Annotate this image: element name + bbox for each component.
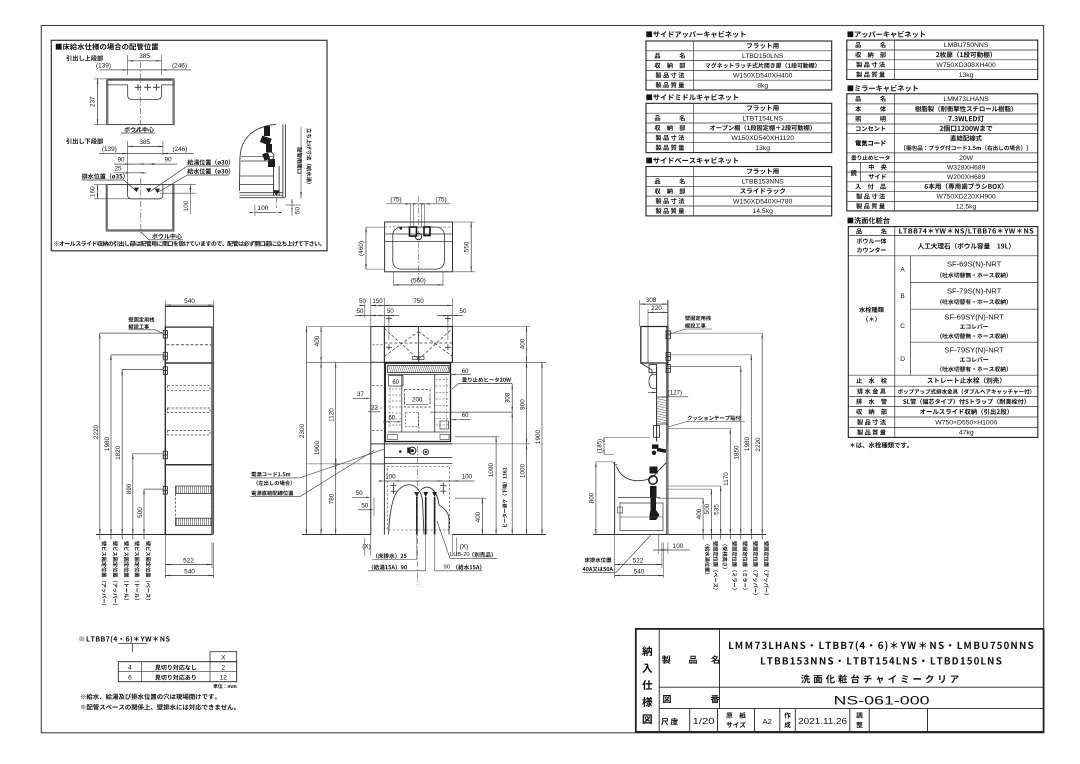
- svg-text:22: 22: [371, 405, 378, 412]
- box: floor water supply piping positions: [51, 40, 327, 251]
- svg-text:50: 50: [387, 308, 394, 315]
- side section: riser dim line: [300, 127, 302, 199]
- svg-text:308: 308: [505, 392, 512, 403]
- side view: 100 bottom dim: [658, 535, 660, 555]
- upper counter: 385 dim: [128, 60, 162, 62]
- svg-text:1980: 1980: [104, 436, 111, 451]
- side view: wall clips right: [666, 331, 670, 339]
- svg-text:750: 750: [413, 298, 424, 305]
- svg-text:900: 900: [519, 399, 526, 410]
- label: hot water position: [187, 159, 230, 165]
- table header: side upper cabinet: [646, 31, 745, 38]
- svg-text:50: 50: [359, 298, 366, 305]
- elevation: counter band: [371, 443, 453, 445]
- vanity: faucet type label: [859, 307, 884, 313]
- svg-text:522: 522: [633, 557, 644, 564]
- elevation: top dim row 50/150/750: [361, 305, 365, 307]
- svg-text:50: 50: [356, 490, 363, 497]
- svg-text:1820: 1820: [115, 445, 122, 460]
- svg-text:50: 50: [357, 308, 364, 315]
- plan view: bowl rounded rect: [393, 227, 445, 269]
- svg-text:385: 385: [139, 53, 150, 60]
- svg-text:50: 50: [295, 207, 302, 215]
- svg-text:LTBB153NNS: LTBB153NNS: [742, 179, 785, 186]
- elevation: bottom pipe labels: [376, 553, 407, 558]
- svg-text:(X): (X): [362, 544, 371, 551]
- svg-text:W750XD308XH400: W750XD308XH400: [936, 62, 996, 69]
- tall cabinet: 522/540 bottom dims: [164, 535, 166, 579]
- mirror: interior columns: [401, 375, 403, 433]
- svg-text:150: 150: [372, 298, 383, 305]
- elevation: screw crosses upper: [386, 318, 392, 320]
- side view: drain assembly: [650, 467, 658, 474]
- svg-text:NS-061-000: NS-061-000: [834, 694, 930, 708]
- svg-text:100: 100: [385, 474, 396, 481]
- plan view: centerline: [417, 196, 419, 280]
- tall cabinet: 540 top dim: [165, 304, 213, 306]
- svg-text:(185): (185): [597, 439, 604, 453]
- table header: upper cabinet: [848, 31, 926, 38]
- lower 90/90 dim: [114, 163, 177, 165]
- svg-text:308: 308: [646, 297, 657, 304]
- svg-text:522: 522: [183, 557, 194, 564]
- upper counter bowl outline: [107, 85, 174, 100]
- table: mirror cabinet: [847, 94, 1038, 211]
- tall cabinet: slide rack hatched bars: [176, 486, 212, 494]
- tall cabinet: upper cabinet box: [165, 327, 212, 363]
- elevation: supply pipes: [416, 497, 418, 535]
- svg-text:4: 4: [128, 665, 132, 672]
- svg-text:100: 100: [258, 205, 269, 212]
- elevation: side upper cabinet: [371, 327, 385, 363]
- title block: row dividers: [659, 686, 1043, 688]
- title block: product name label: [662, 655, 670, 663]
- unit note: mm: [213, 684, 236, 689]
- svg-text:1900: 1900: [535, 429, 542, 444]
- title block: paper size cell: [726, 712, 746, 718]
- svg-text:W200XH689: W200XH689: [947, 174, 986, 181]
- label: drawer upper section: [66, 55, 103, 61]
- side view: 220 dim: [648, 311, 668, 313]
- elevation: heater dim 1362 + 1090 + 400: [511, 412, 513, 534]
- plan view: faucet symbols: [410, 227, 417, 236]
- svg-text:1090: 1090: [488, 462, 495, 477]
- svg-text:400: 400: [314, 335, 321, 346]
- svg-text:D: D: [900, 356, 905, 363]
- svg-text:37: 37: [357, 391, 364, 398]
- variation table: [210, 652, 237, 662]
- svg-text:50: 50: [361, 503, 368, 510]
- svg-text:(246): (246): [172, 62, 187, 69]
- svg-text:60: 60: [462, 369, 469, 375]
- elevation: screw crosses drawer: [391, 485, 397, 487]
- svg-text:8kg: 8kg: [757, 82, 768, 89]
- title block: delivery spec column: [658, 629, 660, 732]
- svg-text:A2: A2: [763, 717, 772, 726]
- title block: adjust cell: [856, 712, 862, 718]
- svg-text:W150XD540XH780: W150XD540XH780: [733, 198, 793, 205]
- svg-text:(246): (246): [172, 146, 187, 153]
- lower 25 dim: [114, 172, 146, 174]
- tall cabinet: base cabinet box: [165, 465, 212, 535]
- vanity note: asterisk is faucet type: [850, 442, 909, 448]
- tall cabinet: wall screw clips: [163, 331, 167, 339]
- side view: base cabinet outline: [614, 462, 616, 535]
- elevation: second dim row 50s: [355, 315, 375, 317]
- box title: [56, 43, 159, 50]
- svg-text:100: 100: [183, 200, 190, 211]
- side section: wall lines: [282, 124, 284, 197]
- svg-text:12.5kg: 12.5kg: [956, 203, 977, 210]
- svg-text:220: 220: [651, 305, 662, 312]
- side view: 522/540 dims: [614, 535, 616, 579]
- svg-text:540: 540: [634, 568, 645, 575]
- label: drawer lower section: [66, 138, 103, 144]
- power cord labels (left of elevation): [251, 472, 290, 477]
- svg-text:50: 50: [460, 308, 467, 315]
- svg-text:2220: 2220: [93, 424, 100, 439]
- box note: all-slide storage piping note: [54, 241, 321, 247]
- table: side upper cabinet: [646, 41, 832, 90]
- vertical label: riser height (supply): [306, 128, 311, 184]
- svg-text:20W: 20W: [959, 155, 974, 162]
- tall cabinet: outline: [164, 307, 166, 535]
- svg-text:13kg: 13kg: [755, 145, 770, 152]
- svg-text:6: 6: [128, 675, 132, 682]
- elevation: right dim chain 400/900/1000: [526, 327, 528, 535]
- lower 160 dim: [97, 185, 99, 199]
- svg-text:LMBU750NNS: LMBU750NNS: [944, 42, 989, 49]
- elevation: 100/100 dims: [384, 480, 393, 482]
- side view: door at bottom: [654, 426, 660, 438]
- svg-text:47kg: 47kg: [959, 430, 974, 437]
- svg-text:(560): (560): [411, 277, 426, 284]
- svg-text:LMM73LHANS: LMM73LHANS: [943, 96, 989, 103]
- elevation: upper cabinet (main, door swing): [384, 327, 452, 363]
- svg-text:13kg: 13kg: [959, 72, 974, 79]
- title block: drawing number label: [663, 695, 671, 703]
- svg-text:90: 90: [164, 157, 172, 164]
- svg-text:780: 780: [329, 493, 336, 504]
- svg-text:550: 550: [464, 241, 471, 252]
- tall cabinet: middle shelves (dashed): [168, 386, 211, 391]
- title block: scale cell: [661, 718, 668, 725]
- svg-text:890: 890: [126, 483, 133, 494]
- note: field drilling: [81, 694, 217, 700]
- svg-text:2300: 2300: [299, 423, 306, 438]
- side view: 308 dim: [640, 303, 668, 305]
- svg-text:1900: 1900: [314, 440, 321, 455]
- svg-text:90: 90: [117, 157, 125, 164]
- svg-text:W328XH689: W328XH689: [947, 164, 986, 171]
- svg-text:12: 12: [220, 675, 228, 682]
- plan view: 550 right dim: [470, 222, 472, 272]
- vanity: product name row: [899, 228, 1033, 235]
- side view: faucet blob: [652, 444, 659, 449]
- variation underline + leader: [118, 643, 146, 645]
- svg-text:1980: 1980: [744, 436, 751, 451]
- svg-text:2220: 2220: [755, 437, 762, 452]
- upper bowl-center label: [124, 127, 154, 133]
- tall cabinet: left dim chain (wall screw heights): [99, 333, 101, 539]
- svg-text:100: 100: [673, 543, 684, 550]
- mirror cabinet: electric cord cell (2 lines): [855, 140, 885, 146]
- side view: drawer internals: [618, 497, 660, 499]
- tall cabinet: middle cabinet box: [165, 363, 212, 465]
- lower (139)/(246) dim: [99, 153, 194, 155]
- svg-text:60: 60: [388, 416, 395, 422]
- svg-text:C: C: [900, 323, 905, 330]
- svg-text:(139): (139): [96, 62, 111, 69]
- svg-text:LTBD150LNS: LTBD150LNS: [742, 53, 784, 60]
- svg-text:1/20: 1/20: [693, 717, 716, 726]
- side view: floor under cabinet: [615, 534, 668, 536]
- side view: wall line: [667, 300, 669, 535]
- mirror: right col dashed shelves: [436, 379, 448, 381]
- side section: 100 dim: [255, 212, 276, 214]
- svg-text:W150XD540XH1120: W150XD540XH1120: [731, 135, 794, 142]
- svg-text:1120: 1120: [329, 408, 336, 422]
- side view: right dim chain: [702, 498, 704, 539]
- elevation: side column (middle+base): [370, 362, 372, 534]
- svg-text:B: B: [900, 293, 905, 300]
- vanity: bottom rows: [856, 378, 887, 384]
- cushion tape label: [687, 415, 740, 420]
- svg-text:100: 100: [462, 474, 473, 481]
- plan view: counter outline: [385, 222, 453, 272]
- svg-text:(75): (75): [390, 196, 401, 203]
- svg-text:385: 385: [139, 139, 150, 146]
- elevation: 308 dim right: [451, 411, 513, 413]
- svg-text:237: 237: [90, 96, 97, 107]
- mirror: left col dashed shelves: [389, 388, 401, 390]
- elevation: right dim 1900: [541, 362, 543, 534]
- side section: bowl curve: [239, 124, 276, 191]
- drain point marks: [134, 188, 139, 193]
- svg-text:(139): (139): [102, 146, 117, 153]
- svg-text:400: 400: [696, 508, 703, 519]
- plan view: (460) left dim: [365, 227, 367, 269]
- title block outer frame: [636, 629, 1044, 732]
- mirror: bottom hatched rail: [388, 435, 398, 440]
- svg-text:SF-79S(N)-NRT: SF-79S(N)-NRT: [947, 286, 1002, 295]
- elevation: extension lines top: [364, 303, 366, 318]
- svg-text:800: 800: [589, 492, 596, 503]
- mirror: bottom small dashed details: [406, 413, 419, 427]
- label: drain position: [82, 173, 125, 179]
- side view: heater hatch strip: [657, 397, 668, 424]
- elevation: drawer area: [384, 462, 452, 464]
- side section: floor drain mark: [273, 190, 280, 196]
- side view: wall batten label (right): [685, 316, 711, 321]
- svg-text:SF-69SY(N)-NRT: SF-69SY(N)-NRT: [944, 313, 1004, 322]
- mirror: top light strip hatched: [388, 366, 450, 373]
- upper 237 dim: [97, 79, 99, 125]
- title block: created cell: [784, 712, 790, 718]
- elevation: bowl trap curves: [389, 485, 425, 535]
- mirror: 60 light label: [389, 376, 404, 387]
- elevation: right extension ticks: [452, 326, 530, 328]
- label: drain connection position: [585, 557, 612, 562]
- side section: trap pipe down: [273, 166, 275, 196]
- label: cold water position: [187, 168, 230, 174]
- svg-text:535: 535: [714, 504, 721, 515]
- lower 385 dim: [128, 146, 163, 148]
- elevation: left extension ticks: [306, 326, 370, 328]
- table: side base cabinet: [646, 167, 832, 216]
- svg-text:(127): (127): [668, 390, 682, 397]
- side view: (185) dim: [603, 438, 605, 455]
- svg-text:2: 2: [221, 665, 225, 672]
- upper counter: (139)/(246) dim line: [99, 69, 190, 71]
- table: side middle cabinet: [646, 103, 832, 152]
- tall cabinet: floor line: [96, 534, 165, 536]
- svg-text:W750×D550×H1000: W750×D550×H1000: [935, 419, 997, 426]
- svg-text:90: 90: [444, 565, 450, 571]
- svg-text:160: 160: [90, 186, 97, 197]
- svg-text:SF-79SY(N)-NRT: SF-79SY(N)-NRT: [944, 346, 1004, 355]
- side view: right chain leaders: [668, 332, 762, 334]
- table: upper cabinet: [847, 40, 1038, 79]
- lower 100 dim right: [189, 185, 191, 194]
- svg-text:LUB-20: LUB-20: [450, 552, 470, 558]
- lower bowl centerline: [140, 178, 142, 236]
- plan view: (560) bottom dim: [394, 284, 444, 286]
- side view: mirror cabinet profile: [641, 363, 652, 375]
- lower bowl outline: [128, 185, 163, 199]
- vanity: bowl counter row: [857, 238, 887, 244]
- svg-text:25: 25: [114, 165, 122, 172]
- table header: side middle cabinet: [646, 94, 738, 101]
- table header: mirror cabinet: [848, 85, 918, 92]
- svg-text:500: 500: [704, 503, 711, 514]
- svg-text:540: 540: [184, 568, 195, 575]
- svg-text:400: 400: [475, 511, 482, 522]
- upper counter box: [107, 79, 174, 125]
- svg-text:14.5kg: 14.5kg: [752, 208, 773, 215]
- elevation: mirror cabinet box: [385, 363, 450, 441]
- title block: bottom row dividers: [689, 709, 691, 732]
- svg-text:W150XD540XH400: W150XD540XH400: [733, 73, 793, 80]
- title block: product name lines: [729, 641, 1033, 651]
- table header: side base cabinet: [646, 157, 738, 164]
- svg-text:1850: 1850: [734, 445, 741, 460]
- side section: 50 dim: [285, 204, 301, 206]
- table header: vanity (washbasin counter): [848, 217, 890, 224]
- svg-text:60: 60: [392, 380, 399, 386]
- elevation: left dim chains: [305, 327, 307, 535]
- lower counter box: [106, 185, 174, 231]
- mirror cabinet: mirror sub-rows: [860, 162, 862, 181]
- svg-text:LTBT154LNS: LTBT154LNS: [742, 115, 783, 122]
- elevation: faucet knobs: [409, 447, 416, 454]
- svg-text:A: A: [900, 266, 905, 273]
- tall cabinet: wall screw vertical labels: [102, 541, 107, 605]
- side section: plumbing blobs: [264, 126, 270, 136]
- svg-text:200: 200: [412, 397, 423, 404]
- svg-text:1170: 1170: [723, 472, 730, 486]
- svg-text:400: 400: [519, 338, 526, 349]
- svg-text:W750XD220XH900: W750XD220XH900: [936, 194, 996, 201]
- side view: right chain vertical labels: [705, 544, 710, 574]
- mirror: center 200 dashed box + label: [405, 390, 431, 408]
- plan view: (75)(75) dims: [387, 203, 451, 205]
- note: wall drain not supported: [81, 704, 236, 710]
- svg-text:2021.11.26: 2021.11.26: [798, 717, 847, 726]
- svg-text:540: 540: [184, 298, 195, 305]
- label: LTBB7 variation code: [79, 636, 169, 643]
- svg-text:SF-69S(N)-NRT: SF-69S(N)-NRT: [947, 260, 1002, 269]
- upper faucet hole crosses: [135, 86, 142, 88]
- label: anti-fog heater 20W: [462, 377, 511, 382]
- tall cabinet: wall batten label: [129, 317, 155, 322]
- svg-text:(X): (X): [460, 544, 469, 551]
- side view: 800 dim: [595, 462, 597, 535]
- table: vanity: [848, 227, 1038, 438]
- svg-text:1000: 1000: [519, 463, 526, 478]
- elevation: center dashdot lower: [417, 446, 419, 585]
- side view: (127) dim: [648, 392, 657, 394]
- svg-text:(75): (75): [435, 196, 446, 203]
- svg-text:(460): (460): [358, 241, 365, 256]
- upper bowl centerline: [139, 62, 141, 131]
- lower bowl-center label: [152, 233, 182, 239]
- svg-text:60: 60: [462, 413, 469, 419]
- svg-text:500: 500: [137, 507, 144, 518]
- side section: drawer lines: [241, 156, 274, 158]
- vertical label: piping opening: [297, 147, 302, 173]
- side view: upper cabinet box: [641, 327, 668, 364]
- svg-text:X: X: [221, 654, 226, 661]
